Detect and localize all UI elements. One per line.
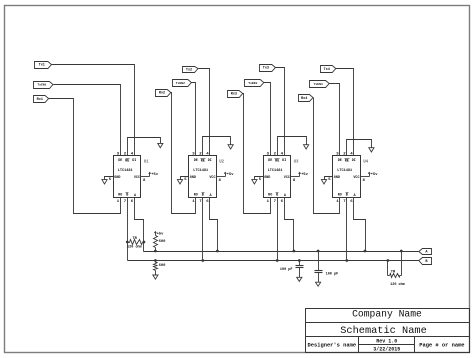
node Rx3 tag — [228, 91, 243, 98]
wire U3 pin8 VCC to +5v — [291, 176, 300, 178]
svg-text:GND: GND — [334, 176, 340, 180]
svg-text:Designer's name: Designer's name — [308, 342, 357, 348]
svg-text:RO: RO — [194, 194, 198, 198]
svg-text:600: 600 — [159, 264, 167, 268]
capacitor 100 pF on net A — [318, 252, 320, 271]
svg-text:B: B — [276, 194, 278, 198]
svg-text:U4: U4 — [363, 160, 368, 164]
svg-text:VCC: VCC — [284, 176, 290, 180]
node Tx1 tag — [35, 62, 52, 69]
svg-text:B: B — [202, 194, 204, 198]
wire U1 pin6 A to bus — [135, 198, 144, 252]
svg-text:+5v: +5v — [227, 173, 234, 177]
svg-text:VCC: VCC — [209, 176, 215, 180]
wire U4 pin2 /RE to ground — [347, 140, 372, 156]
IC U3 LTC1481 transceiver — [264, 156, 291, 198]
junction U2 pin6 on A bus — [216, 250, 219, 253]
wire U2 pin6 A to bus — [210, 198, 218, 252]
wire U3 pin6 A to bus — [285, 198, 294, 252]
svg-text:DE: DE — [268, 159, 272, 163]
resistor TR 120 ohm termination left — [130, 240, 143, 245]
junction TR right — [143, 241, 146, 244]
node A tag — [419, 249, 432, 255]
node TxEN1 tag — [34, 82, 54, 89]
svg-text:3/22/2015: 3/22/2015 — [373, 347, 400, 353]
svg-text:120 ohm: 120 ohm — [127, 244, 142, 249]
svg-text:DE: DE — [118, 159, 122, 163]
svg-text:LTC1481: LTC1481 — [193, 169, 208, 173]
junction pulldown on B bus — [154, 259, 157, 262]
junction U4 pin6 on A bus — [364, 250, 367, 253]
svg-text:RE: RE — [201, 160, 205, 164]
node Tx2 tag — [183, 67, 199, 73]
wire Tx3 to U3 pin4 DI — [276, 68, 285, 156]
+5v supply U3 — [299, 173, 301, 177]
node Rx2 tag — [156, 90, 171, 97]
svg-text:RO: RO — [118, 194, 122, 198]
junction C2 on A bus — [317, 250, 320, 253]
svg-text:U1: U1 — [144, 160, 149, 164]
node Rx1 tag — [34, 96, 49, 103]
svg-text:TR: TR — [391, 271, 396, 275]
svg-text:VCC: VCC — [353, 176, 359, 180]
+5v supply U4 — [369, 173, 371, 177]
wire U2 pin5 GND — [181, 177, 189, 180]
svg-text:100 pF: 100 pF — [280, 268, 293, 272]
svg-text:Rx3: Rx3 — [231, 93, 237, 97]
junction U3 pin6 on A bus — [293, 250, 296, 253]
wire U1 pin7 B to bus — [127, 198, 129, 261]
svg-text:U3: U3 — [294, 160, 299, 164]
wire U2 pin8 VCC to +5v — [217, 176, 226, 178]
svg-text:RE: RE — [345, 160, 349, 164]
ground arrow U3 pin5 — [252, 180, 257, 184]
wire Rx3 to U3 pin1 RO — [243, 94, 271, 214]
wire U3 pin7 B to bus — [277, 198, 279, 261]
svg-text:Rx2: Rx2 — [159, 92, 165, 96]
node TxEN4 tag — [310, 81, 330, 88]
wire Rx4 to U4 pin1 RO — [314, 98, 340, 214]
wire U1 pin2 /RE to ground — [128, 138, 161, 156]
svg-text:600: 600 — [159, 240, 167, 244]
svg-text:DI: DI — [282, 159, 286, 163]
svg-text:Rev 1.0: Rev 1.0 — [376, 339, 397, 345]
node Tx3 tag — [260, 65, 276, 72]
wire U4 pin8 VCC to +5v — [361, 176, 370, 178]
svg-text:Page # or name: Page # or name — [419, 342, 464, 348]
IC U1 LTC1481 transceiver — [114, 156, 141, 198]
ground arrow for U2 /RE — [228, 145, 233, 149]
svg-text:DE: DE — [338, 159, 342, 163]
wire net B bus — [128, 260, 419, 262]
ground arrow U4 pin5 — [321, 180, 326, 184]
wire U1 pin5 GND — [105, 177, 114, 180]
svg-text:DI: DI — [352, 159, 356, 163]
wire TxEN2 to U2 pin3 DE — [192, 83, 196, 156]
svg-text:RO: RO — [338, 194, 342, 198]
svg-text:DI: DI — [208, 159, 212, 163]
svg-text:RO: RO — [268, 194, 272, 198]
svg-text:Rx4: Rx4 — [301, 97, 307, 101]
node Rx4 tag — [299, 95, 314, 102]
svg-text:GND: GND — [264, 176, 270, 180]
wire TxEN3 to U3 pin3 DE — [264, 83, 271, 156]
wire U3 pin2 /RE to ground — [278, 137, 307, 156]
wire Rx1 to U1 pin1 RO — [49, 99, 121, 214]
junction U3 pin7 on B bus — [276, 259, 279, 262]
svg-text:Company Name: Company Name — [352, 309, 422, 320]
wire Tx4 to U4 pin4 DI — [336, 69, 354, 156]
junction pullup on A bus — [154, 250, 157, 253]
svg-text:+5v: +5v — [157, 233, 164, 237]
node TxEN2 tag — [173, 80, 192, 87]
wire U4 pin6 A to bus — [354, 198, 366, 252]
ground arrow for U4 /RE — [369, 148, 374, 152]
svg-text:GND: GND — [114, 176, 120, 180]
capacitor 100 pF on net B — [299, 261, 301, 266]
wire U1 pin8 VCC to +5v — [141, 176, 150, 178]
svg-text:+5v: +5v — [151, 173, 158, 177]
wire U2 pin7 B to bus — [202, 198, 204, 261]
svg-text:Schematic Name: Schematic Name — [340, 325, 427, 337]
svg-text:TxEN2: TxEN2 — [176, 82, 185, 85]
svg-text:U2: U2 — [219, 160, 224, 164]
wire Tx1 to U1 pin4 DI — [52, 65, 135, 156]
ground arrow pulldown — [153, 275, 158, 279]
resistor TR 120 ohm termination right — [387, 261, 389, 276]
IC U4 LTC1481 transceiver — [333, 156, 361, 198]
wire Rx2 to U2 pin1 RO — [171, 93, 196, 214]
ground arrow C1 — [297, 277, 302, 281]
svg-text:TxEN1: TxEN1 — [37, 84, 46, 87]
node Tx4 tag — [321, 66, 336, 73]
+5v supply pullup — [155, 232, 157, 236]
node TxEN3 tag — [245, 80, 264, 87]
svg-text:LTC1481: LTC1481 — [118, 169, 133, 173]
resistor 600 pulldown to ground — [155, 261, 157, 263]
IC U2 LTC1481 transceiver — [189, 156, 217, 198]
node B tag — [419, 258, 432, 265]
resistor 600 pullup to +5v — [155, 235, 157, 237]
wire U4 pin5 GND — [325, 177, 333, 180]
junction C1 on B bus — [298, 259, 301, 262]
svg-text:LTC1481: LTC1481 — [337, 169, 352, 173]
junction TR left — [126, 241, 129, 244]
svg-text:Tx4: Tx4 — [324, 68, 330, 72]
wire TxEN1 to U1 pin3 DE — [54, 85, 121, 156]
svg-text:+5v: +5v — [371, 173, 378, 177]
svg-text:VCC: VCC — [134, 176, 140, 180]
wire U2 pin2 /RE to ground — [203, 137, 231, 156]
svg-text:Tx2: Tx2 — [186, 68, 192, 72]
svg-text:DI: DI — [132, 159, 136, 163]
svg-text:GND: GND — [190, 176, 196, 180]
wire Tx2 to U2 pin4 DI — [199, 69, 210, 156]
svg-text:TR: TR — [132, 237, 137, 241]
ground arrow U2 pin5 — [177, 180, 182, 184]
svg-text:Tx1: Tx1 — [39, 64, 45, 68]
junction U4 pin7 on B bus — [345, 259, 348, 262]
svg-text:Rx1: Rx1 — [37, 98, 43, 102]
svg-text:100 pF: 100 pF — [326, 272, 339, 276]
ground arrow for U3 /RE — [304, 145, 309, 149]
svg-text:TxEN3: TxEN3 — [248, 82, 257, 85]
wire U3 pin5 GND — [255, 177, 264, 180]
+5v supply U1 — [149, 173, 151, 177]
junction TR2 on A bus — [400, 250, 403, 253]
svg-text:RE: RE — [125, 160, 129, 164]
svg-text:TxEN4: TxEN4 — [314, 83, 323, 86]
wire TxEN4 to U4 pin3 DE — [330, 84, 340, 156]
junction TR2 on B bus — [387, 259, 390, 262]
svg-text:DE: DE — [194, 159, 198, 163]
svg-text:+5v: +5v — [301, 173, 308, 177]
svg-text:RE: RE — [275, 160, 279, 164]
ground arrow U1 pin5 — [102, 180, 107, 184]
ground arrow C2 — [316, 282, 321, 286]
+5v supply U2 — [225, 173, 227, 177]
svg-text:120 ohm: 120 ohm — [390, 282, 405, 287]
svg-text:B: B — [126, 194, 128, 198]
title block — [306, 309, 470, 353]
svg-text:B: B — [346, 194, 348, 198]
junction U2 pin7 on B bus — [201, 259, 204, 262]
ground arrow for U1 /RE — [158, 143, 163, 147]
svg-text:LTC1481: LTC1481 — [268, 169, 283, 173]
wire net A bus — [144, 251, 419, 253]
svg-text:Tx3: Tx3 — [263, 67, 269, 71]
wire U4 pin7 B to bus — [346, 198, 348, 261]
